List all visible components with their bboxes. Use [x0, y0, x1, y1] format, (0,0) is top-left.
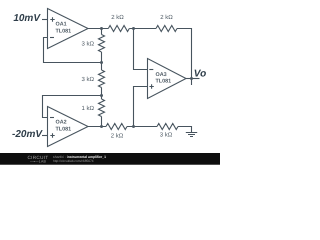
wire OA1 output to node A: [88, 28, 108, 30]
node Vo junction dot: [190, 77, 193, 80]
wire to node X: [101, 52, 103, 70]
svg-text:10mV: 10mV: [13, 13, 41, 24]
wire bottom node to R7: [127, 126, 157, 128]
node A junction dot: [100, 27, 103, 30]
wire input -20mV stub: [42, 135, 48, 137]
wire Vo stub down: [191, 79, 193, 86]
resistor R1 2 kOhm top-left: [108, 26, 129, 32]
op-amp OA1: [48, 9, 89, 49]
svg-text:2 kΩ: 2 kΩ: [111, 14, 124, 21]
svg-text:http://circuitlab.com/c685674: http://circuitlab.com/c685674: [53, 159, 94, 163]
wire OA3 plus input left and down to bottom row: [134, 87, 148, 127]
wire node B segment: [129, 28, 156, 30]
resistor R3 3 kOhm vertical upper: [99, 35, 105, 53]
svg-text:3 kΩ: 3 kΩ: [82, 41, 95, 48]
resistor R5 1 kOhm vertical: [99, 99, 105, 117]
op-amp OA2: [48, 107, 89, 147]
resistor R7 3 kOhm bottom: [157, 124, 178, 130]
wire input 10mV stub: [42, 19, 48, 21]
svg-text:TL081: TL081: [56, 127, 72, 133]
node B junction dot: [132, 27, 135, 30]
wire OA2 output to R6: [88, 126, 106, 128]
resistor R6 2 kOhm bottom: [106, 124, 127, 130]
wire 1k to OA2 output node: [101, 117, 103, 127]
node X junction dot: [100, 61, 103, 64]
wire top-right corner down to Vo node: [177, 29, 192, 79]
svg-text:2 kΩ: 2 kΩ: [111, 133, 124, 140]
wire Vo output stub right: [186, 78, 200, 80]
resistor R4 3 kOhm vertical gain: [99, 70, 105, 88]
node bottom plus junction dot: [132, 125, 135, 128]
svg-text:-20mV: -20mV: [12, 129, 43, 140]
ground: [186, 133, 197, 137]
svg-text:Vo: Vo: [194, 68, 206, 79]
svg-text:OA2: OA2: [56, 119, 67, 125]
op-amp OA3: [148, 59, 187, 99]
watermark bar: [0, 153, 220, 165]
node OA2 output junction dot: [100, 125, 103, 128]
svg-text:2 kΩ: 2 kΩ: [160, 14, 173, 21]
wire R7 to ground corner: [178, 127, 192, 133]
svg-text:—▪—LAB: —▪—LAB: [30, 160, 47, 164]
svg-text:TL081: TL081: [156, 78, 172, 84]
svg-text:1 kΩ: 1 kΩ: [82, 105, 95, 112]
node Y junction dot: [100, 94, 103, 97]
wire OA1 feedback: minus input to node X: [44, 38, 102, 63]
svg-text:3 kΩ: 3 kΩ: [82, 76, 95, 83]
svg-text:3 kΩ: 3 kΩ: [160, 132, 173, 139]
svg-text:TL081: TL081: [56, 29, 72, 35]
resistor R2 2 kOhm top-right feedback: [156, 26, 177, 32]
wire OA2 feedback: node Y to minus input: [43, 96, 102, 118]
wire OA1 output node down: [101, 29, 103, 35]
svg-text:OA1: OA1: [56, 22, 67, 28]
svg-text:OA3: OA3: [156, 72, 167, 78]
wire to node Y: [101, 88, 103, 100]
wire node B down to OA3 minus input: [134, 29, 148, 70]
